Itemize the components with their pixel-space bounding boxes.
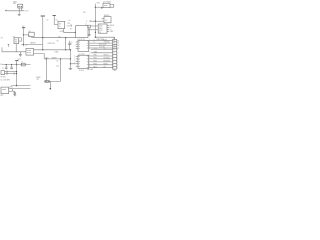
C7 stem xyxy=(88,28,90,35)
Y2 stub 2 xyxy=(5,73,7,75)
wire jack to bus xyxy=(95,6,103,8)
resonator Y2 xyxy=(1,71,5,75)
svg-text:VIN: VIN xyxy=(97,2,101,4)
label R5 xyxy=(57,41,59,43)
U4 left labels xyxy=(71,42,73,46)
wire 5V rail mid xyxy=(32,37,75,39)
wire out xyxy=(12,88,30,90)
regulator U3 xyxy=(104,17,111,23)
wire VIN to regulator xyxy=(90,20,105,22)
svg-text:C3: C3 xyxy=(56,61,58,63)
connector J1 xyxy=(26,48,34,55)
C1 label xyxy=(2,68,4,70)
U1 gnd bus xyxy=(69,50,71,68)
svg-text:R1: R1 xyxy=(117,40,119,42)
wire bus to USB xyxy=(94,21,96,37)
svg-text:PB0: PB0 xyxy=(94,55,97,57)
svg-text:3: 3 xyxy=(74,60,75,62)
box2 inner text xyxy=(105,20,108,22)
label below bank xyxy=(88,68,95,71)
switch S1 body xyxy=(14,38,19,44)
net label VIN top xyxy=(97,2,101,4)
svg-text:RST: RST xyxy=(0,95,3,97)
junction xyxy=(23,34,24,35)
label PWR LED xyxy=(48,43,56,45)
wire xyxy=(8,71,17,73)
small text xyxy=(46,20,49,22)
bottom rail xyxy=(11,85,30,87)
debounce cap xyxy=(12,91,16,94)
svg-text:1: 1 xyxy=(117,56,118,58)
junction xyxy=(42,49,43,50)
ground stem mic xyxy=(18,11,20,14)
junction xyxy=(23,44,24,45)
U1 left pin 5 xyxy=(76,65,78,67)
ground C7 xyxy=(88,35,91,36)
U1 bottom label xyxy=(79,70,84,72)
svg-text:SCK/DO: SCK/DO xyxy=(104,58,111,60)
wire reset xyxy=(21,44,43,46)
header pin line y49.6 xyxy=(91,49,113,51)
svg-text:SOIC8: SOIC8 xyxy=(79,70,84,72)
wire USB gnd run xyxy=(95,36,114,38)
label R2 xyxy=(1,38,3,40)
label xyxy=(45,57,56,59)
label CN8 xyxy=(113,70,116,72)
svg-text:D: D xyxy=(94,42,96,44)
svg-text:X2: X2 xyxy=(70,25,72,27)
microphone pin 2 xyxy=(21,8,23,11)
wire J1 pin1 xyxy=(34,49,71,51)
net flag left xyxy=(5,9,7,12)
small power tick xyxy=(8,43,10,45)
svg-text:RESET: RESET xyxy=(30,42,36,44)
junction xyxy=(70,63,71,64)
svg-text:IN: IN xyxy=(70,28,72,30)
net label text xyxy=(36,76,40,81)
svg-text:MOSI/DI: MOSI/DI xyxy=(104,61,111,63)
crystal symbol xyxy=(45,80,49,82)
SW1 pin 1 xyxy=(9,88,13,90)
svg-text:R3 10K: R3 10K xyxy=(0,76,6,78)
small element xyxy=(13,73,14,75)
svg-text:G: G xyxy=(113,52,115,54)
USB pin stub 4 xyxy=(107,31,109,33)
S1 inner mark xyxy=(15,39,18,43)
header pin line y48.0 xyxy=(89,47,113,49)
svg-text:VIN: VIN xyxy=(83,12,86,14)
label VIN mid xyxy=(83,12,86,14)
junction xyxy=(95,21,96,22)
svg-text:5V: 5V xyxy=(105,20,108,22)
connector J1 label xyxy=(25,45,27,47)
capacitor C6 xyxy=(68,41,71,50)
svg-text:PWR LED: PWR LED xyxy=(48,43,56,45)
IC U1 label xyxy=(78,54,85,56)
capacitor C2 xyxy=(10,65,13,70)
ground SW xyxy=(13,95,16,96)
svg-text:4: 4 xyxy=(89,51,90,53)
header pin line y45.5 xyxy=(89,45,113,47)
pin numbers xyxy=(101,18,102,20)
test drop xyxy=(49,81,51,88)
IC U4 xyxy=(78,40,89,51)
U4 left pin 1 xyxy=(76,41,78,43)
U1 inner pin marks xyxy=(79,56,89,68)
shield drop xyxy=(114,37,116,39)
gnd rail xyxy=(2,47,26,51)
pin dot U5 xyxy=(75,32,76,33)
svg-text:1: 1 xyxy=(89,48,90,50)
U1 left pin 2 xyxy=(76,58,78,60)
U4 left pin 4 xyxy=(76,48,78,50)
svg-text:J1: J1 xyxy=(25,45,27,47)
series cap plates xyxy=(6,71,7,73)
svg-text:PB3: PB3 xyxy=(94,63,97,65)
header pin line y67.7 xyxy=(89,67,113,69)
junction xyxy=(42,37,43,38)
cap leg right xyxy=(60,59,62,82)
svg-text:GND: GND xyxy=(94,51,99,53)
svg-text:5P: 5P xyxy=(99,32,101,34)
svg-text:RS: RS xyxy=(15,39,17,41)
svg-text:C4: C4 xyxy=(68,20,70,22)
svg-text:VCC: VCC xyxy=(94,48,98,50)
svg-text:16MHZ: 16MHZ xyxy=(51,57,56,59)
header pin line y40.7 xyxy=(89,40,113,42)
power jack prongs xyxy=(110,4,114,7)
bottom xtal wire xyxy=(44,80,60,82)
svg-text:4: 4 xyxy=(117,64,118,66)
cap labels xyxy=(56,61,59,68)
U4 left pin 3 xyxy=(76,45,78,47)
svg-text:5V: 5V xyxy=(104,48,107,50)
svg-text:D1 LED GRN: D1 LED GRN xyxy=(0,80,10,82)
Y2 stub 1 xyxy=(5,71,7,73)
polarity dot xyxy=(101,7,102,8)
IC U5 xyxy=(76,26,88,38)
header pin line y52.8 xyxy=(91,52,113,54)
ferrite L1 xyxy=(21,63,25,66)
USB pin stub 3 xyxy=(107,29,109,31)
SW1 pin 2 xyxy=(9,90,13,92)
U2 gnd label xyxy=(60,31,65,33)
wire J1 pin2 xyxy=(34,54,45,59)
xtal label xyxy=(54,51,58,54)
svg-text:IN: IN xyxy=(104,66,106,68)
cap drop C5 xyxy=(65,38,67,50)
cap leg left xyxy=(45,59,47,82)
resistor R9 xyxy=(29,32,34,36)
switch S1 label xyxy=(13,36,15,38)
svg-text:U4 OPTO: U4 OPTO xyxy=(78,39,86,41)
power flag +5V left xyxy=(22,26,25,28)
center bus xyxy=(42,16,44,50)
U1 left pin 4 xyxy=(76,63,78,65)
microphone pin 1 xyxy=(18,8,20,11)
svg-text:1: 1 xyxy=(101,18,102,20)
switch S1 aux box xyxy=(19,38,22,41)
reset label xyxy=(30,42,36,44)
svg-text:C1: C1 xyxy=(2,68,4,70)
svg-text:TP1: TP1 xyxy=(36,79,39,81)
USB data wire 2 xyxy=(88,29,98,31)
svg-text:2: 2 xyxy=(117,59,118,61)
label C7 xyxy=(85,24,87,26)
svg-text:PB1: PB1 xyxy=(94,58,97,60)
regulator U2 label xyxy=(56,20,58,22)
svg-text:AREF: AREF xyxy=(36,76,40,79)
header pin line y56.0 xyxy=(89,55,113,57)
svg-text:T1: T1 xyxy=(117,43,119,45)
net flag VIN left xyxy=(86,21,88,23)
input wire xyxy=(54,16,58,25)
svg-text:1: 1 xyxy=(74,55,75,57)
svg-text:D+: D+ xyxy=(71,42,73,44)
svg-text:G: G xyxy=(59,26,61,28)
S1 gnd drop xyxy=(15,44,17,52)
svg-text:GND: GND xyxy=(110,31,115,33)
header pin line y64.8 xyxy=(89,64,113,66)
SW1 label xyxy=(9,86,13,88)
stub to U1 xyxy=(70,63,75,65)
svg-text:PB2: PB2 xyxy=(94,61,97,63)
svg-text:3: 3 xyxy=(117,62,118,64)
svg-text:D-: D- xyxy=(71,44,73,46)
svg-text:4: 4 xyxy=(74,63,75,65)
net flag xyxy=(31,36,33,39)
svg-text:USB: USB xyxy=(99,26,102,28)
svg-text:SW1: SW1 xyxy=(9,86,13,88)
left bus xyxy=(22,28,24,47)
power flag bottom left xyxy=(15,60,18,62)
connector ladder J2 xyxy=(113,40,117,70)
U4 left pin 2 xyxy=(76,43,78,45)
node dot xyxy=(50,88,52,90)
gnd text xyxy=(19,58,21,60)
svg-text:5V: 5V xyxy=(46,20,49,22)
wire xtal row xyxy=(44,58,70,60)
svg-text:5: 5 xyxy=(117,67,118,69)
net text left xyxy=(0,64,3,66)
5V net text xyxy=(58,36,62,38)
svg-text:CN8: CN8 xyxy=(113,70,116,72)
plus mark xyxy=(71,43,72,45)
microphone MK1 pads xyxy=(19,6,22,7)
U1 left pin 1 xyxy=(76,56,78,58)
ground mic xyxy=(18,13,21,16)
wire to R9 xyxy=(23,34,28,36)
svg-text:SW: SW xyxy=(15,42,18,44)
ground U1 xyxy=(69,68,73,69)
net label xyxy=(28,36,31,38)
U1 left pin numbers xyxy=(74,55,75,64)
svg-text:R5: R5 xyxy=(57,41,59,43)
U1 left pin 3 xyxy=(76,60,78,62)
text row 2 xyxy=(0,80,10,82)
USB data wire 1 xyxy=(91,25,99,27)
microphone MK1 body xyxy=(18,4,23,8)
SW1 inner xyxy=(2,88,6,90)
ground symbol xyxy=(19,52,22,56)
USB inner text xyxy=(99,26,103,34)
text row 1 xyxy=(0,76,6,78)
supply rail bottom xyxy=(2,64,30,66)
header pin line y43.1 xyxy=(89,42,113,44)
USB pin stub 2 xyxy=(107,27,109,29)
label REG xyxy=(104,15,109,17)
USB connector J3 xyxy=(98,24,107,33)
svg-text:R2: R2 xyxy=(117,45,119,47)
vertical long xyxy=(16,65,18,86)
svg-text:OUT: OUT xyxy=(25,11,30,13)
USB pin labels xyxy=(110,25,115,33)
regulator U2 xyxy=(58,21,65,28)
microphone MK1 label xyxy=(13,2,17,6)
svg-text:22p: 22p xyxy=(56,65,59,67)
label C4 xyxy=(68,20,70,22)
wire vertical bus VIN xyxy=(94,4,96,22)
label J2 xyxy=(113,38,115,40)
svg-text:V: V xyxy=(86,21,88,23)
capacitor C7 xyxy=(88,25,91,28)
svg-text:U2: U2 xyxy=(56,20,58,22)
USB pin stub 1 xyxy=(107,25,109,27)
svg-text:J2: J2 xyxy=(113,38,115,40)
net label MICOUT xyxy=(25,11,30,13)
IC U1 xyxy=(78,55,89,68)
junction xyxy=(95,37,96,38)
svg-text:U1 TINY: U1 TINY xyxy=(78,54,85,56)
capacitor C1 xyxy=(5,65,8,70)
IC U5 labels xyxy=(70,25,72,31)
junction xyxy=(95,7,96,8)
label DC PWR xyxy=(103,1,111,3)
header pin line y61.9 xyxy=(89,61,113,63)
junction xyxy=(95,32,96,33)
switch SW1 xyxy=(1,87,9,94)
label L1 xyxy=(21,62,23,64)
svg-text:G: G xyxy=(117,52,119,54)
tie xyxy=(11,89,13,92)
label USB-MINI xyxy=(96,39,104,41)
svg-text:SS/OC: SS/OC xyxy=(104,55,110,57)
power jack inner mark xyxy=(104,4,108,6)
svg-text:R2: R2 xyxy=(1,38,3,40)
wire mic output xyxy=(5,10,24,12)
text below xyxy=(0,95,3,97)
svg-text:MINI: MINI xyxy=(99,28,103,30)
svg-text:2: 2 xyxy=(74,58,75,60)
svg-text:MISO: MISO xyxy=(104,63,109,65)
power jack X1 xyxy=(103,3,110,7)
U2 inner marks xyxy=(59,23,61,28)
J1 inner marks xyxy=(27,50,31,52)
U4 inner pins xyxy=(79,41,89,49)
stem xyxy=(16,61,18,65)
IC U4 label xyxy=(78,39,86,41)
svg-text:CON: CON xyxy=(99,30,103,32)
regulator input pins xyxy=(102,19,104,22)
U2 output label xyxy=(67,23,73,27)
svg-text:+5V: +5V xyxy=(58,36,62,38)
output wire xyxy=(64,29,76,33)
junction xyxy=(65,49,66,50)
header pin line y58.9 xyxy=(89,58,113,60)
svg-text:G: G xyxy=(19,58,21,60)
resistor R9 label xyxy=(29,31,31,33)
input flag bar xyxy=(53,15,56,17)
power bar +5V center xyxy=(41,15,45,17)
svg-text:XTAL: XTAL xyxy=(54,51,58,54)
